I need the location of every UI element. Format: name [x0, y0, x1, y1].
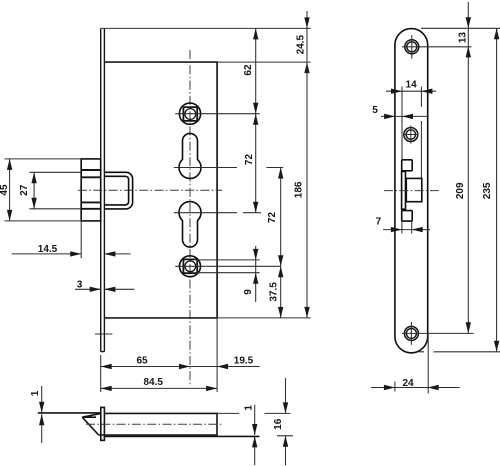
svg-text:209: 209	[455, 182, 466, 199]
dim 186	[306, 62, 308, 318]
middle screw crosshairs	[403, 126, 418, 144]
dim 37.5	[280, 266, 282, 318]
dim 16	[265, 378, 294, 465]
staple hoop inner	[104, 176, 128, 205]
hook bolt block	[81, 159, 101, 221]
middle screw hole inner	[406, 130, 415, 139]
dim 235	[496, 28, 498, 351]
svg-text:62: 62	[243, 64, 254, 76]
plate horizontal center line	[384, 190, 441, 192]
dim 3	[75, 288, 134, 290]
keyhole 1 center line	[174, 167, 283, 169]
dim 13	[467, 2, 469, 46]
bottom square top/bottom extensions	[197, 260, 260, 273]
keyhole 2 (circle up, slot down)	[179, 202, 201, 248]
screw hole bottom outer	[404, 326, 418, 340]
bolt block serration lines	[81, 170, 101, 209]
latch main rectangle	[406, 178, 422, 201]
face plate stadium outline	[395, 29, 428, 353]
bottom screw axis tick on faceplate	[95, 333, 112, 335]
dim 45	[5, 159, 82, 221]
dim 27	[30, 172, 82, 209]
staple hoop outer	[104, 172, 132, 209]
dim 24.5	[306, 11, 308, 74]
case top extension line	[104, 61, 310, 63]
dim 14	[386, 87, 436, 179]
screw hole top outer	[405, 40, 419, 54]
svg-text:27: 27	[19, 184, 30, 196]
bottom square center line	[175, 265, 281, 267]
dim 209	[467, 46, 469, 333]
svg-text:14.5: 14.5	[38, 244, 58, 255]
latch top line	[38, 412, 101, 414]
svg-text:72: 72	[267, 212, 278, 224]
svg-text:14: 14	[406, 79, 418, 90]
case top extension stub	[217, 412, 239, 414]
screw bottom crosshairs	[402, 322, 474, 345]
right view bottom extension	[419, 351, 500, 353]
dim 14.5	[12, 221, 131, 258]
bottom square hole circle	[180, 256, 201, 277]
svg-text:235: 235	[482, 182, 493, 199]
spindle crosshair / extension	[175, 113, 259, 115]
latch cutout square 2	[402, 211, 413, 222]
spindle inner circle	[185, 109, 196, 120]
svg-text:1: 1	[30, 390, 41, 396]
vertical center axis (dash-dot)	[189, 50, 191, 385]
svg-text:72: 72	[244, 154, 255, 166]
svg-text:16: 16	[273, 418, 284, 430]
svg-text:1: 1	[243, 405, 254, 411]
keyhole 2 center line	[174, 212, 261, 214]
svg-text:45: 45	[0, 184, 10, 196]
screw top crosshairs	[402, 35, 472, 58]
horizontal center line of case (dash-dot)	[78, 189, 222, 191]
case bottom extension line	[104, 317, 310, 319]
dim 1 left	[41, 386, 43, 443]
screw hole top inner	[407, 42, 417, 52]
spindle square	[183, 107, 197, 121]
latch wedge tip	[82, 414, 101, 435]
svg-text:65: 65	[136, 356, 148, 367]
svg-text:37.5: 37.5	[269, 282, 280, 302]
dim 9	[255, 246, 257, 302]
case end view box	[98, 413, 217, 435]
dim 72 lower	[280, 168, 282, 267]
right view top extension	[421, 27, 500, 29]
bottom square inner circle	[185, 261, 196, 272]
middle screw hole outer	[404, 128, 418, 142]
screw hole bottom inner	[406, 328, 416, 338]
dim 84.5	[101, 318, 217, 392]
svg-text:19.5: 19.5	[234, 356, 254, 367]
svg-text:186: 186	[293, 181, 304, 198]
svg-text:7: 7	[376, 216, 382, 227]
dim 7	[383, 221, 430, 233]
dim 1 right	[254, 405, 256, 465]
case bottom lip line	[104, 435, 259, 437]
svg-text:13: 13	[457, 32, 468, 44]
case center line dash-dot	[86, 423, 223, 425]
keyhole 1 (slot up, circle down)	[179, 133, 201, 178]
top extension line faceplate	[101, 27, 311, 29]
svg-text:5: 5	[372, 105, 378, 116]
lock case outline	[104, 62, 217, 318]
dim 24	[371, 333, 460, 393]
faceplate side view (3mm strip)	[101, 28, 105, 351]
bottom square	[183, 259, 197, 273]
svg-text:9: 9	[243, 289, 254, 295]
spindle hole circle	[179, 103, 200, 124]
dim 19.5	[190, 366, 260, 368]
dim 62	[255, 28, 257, 113]
dim 5	[381, 115, 429, 117]
faceplate bar end view	[101, 407, 105, 440]
latch cutout square 1	[402, 160, 413, 171]
dim 72 upper	[255, 114, 257, 213]
svg-text:3: 3	[77, 280, 83, 291]
latch bar	[402, 171, 406, 209]
svg-text:84.5: 84.5	[143, 377, 163, 388]
dim 65	[101, 355, 190, 392]
svg-text:24.5: 24.5	[295, 35, 306, 55]
svg-text:24: 24	[402, 378, 414, 389]
